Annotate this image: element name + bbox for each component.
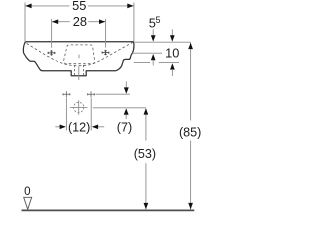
arrow left of dim 55 — [25, 4, 31, 9]
extension line left of dim 55 — [24, 3, 26, 42]
svg-text:10: 10 — [165, 46, 179, 61]
arrow top of dim 53 — [144, 108, 149, 114]
svg-text:(7): (7) — [117, 120, 132, 134]
tap hole right — [102, 50, 110, 55]
reference line drain level — [93, 107, 146, 109]
extension bar right of dim 12 — [90, 98, 92, 131]
fixing hole right — [87, 91, 95, 97]
basin outline — [23, 42, 134, 76]
arrow above rim for dim 10 — [171, 29, 173, 36]
arrow below apron level for dim 10 — [170, 63, 175, 69]
svg-text:(53): (53) — [134, 147, 156, 161]
dashed inner bowl curve — [27, 42, 133, 65]
arrow top of dim 85 — [188, 43, 193, 49]
svg-text:28: 28 — [73, 14, 87, 29]
rim underside reference line — [133, 52, 163, 54]
dashed drain recess left edge — [74, 65, 76, 75]
label (53) — [132, 141, 158, 164]
arrow left of dim 12 — [55, 126, 60, 128]
rim level reference line — [135, 41, 191, 43]
centre tick in shelf — [78, 55, 80, 59]
dimension line 28 — [52, 21, 106, 23]
dashed drain recess right edge — [82, 65, 84, 75]
svg-text:55: 55 — [72, 0, 86, 13]
arrow below rim underside for dim 5.5 — [151, 54, 156, 60]
drain cross horizontal — [70, 106, 87, 108]
datum triangle — [24, 197, 32, 209]
label 10 — [165, 46, 181, 59]
arrow right of dim 12 — [97, 126, 104, 128]
centre line below basin — [78, 66, 80, 80]
label 55 — [70, 0, 89, 12]
dimension line 55 — [25, 5, 134, 7]
arrow below drain level for dim 7 — [124, 108, 129, 114]
svg-text:(85): (85) — [179, 125, 201, 139]
svg-text:5: 5 — [156, 15, 161, 25]
arrow bottom of dim 53 — [144, 203, 149, 209]
dashed rear shelf outline — [64, 45, 95, 64]
extension line right of dim 28 — [105, 19, 107, 48]
label (12) — [67, 121, 90, 133]
svg-text:(12): (12) — [68, 120, 90, 134]
arrow bottom of dim 85 — [188, 203, 193, 209]
fixing hole left — [62, 91, 70, 97]
arrow above fixing level for dim 7 — [125, 81, 127, 88]
dimension line 53 — [145, 109, 147, 210]
arrow right of dim 55 — [127, 4, 133, 9]
arrow above rim for dim 5.5 — [152, 29, 154, 36]
drain circle — [74, 102, 84, 112]
extension bar left of dim 12 — [65, 98, 67, 131]
extension line right of dim 55 — [133, 3, 135, 42]
dimension line 85 — [190, 43, 192, 210]
apron level reference line — [134, 62, 151, 64]
arrow left of dim 28 — [52, 19, 58, 24]
arrow right of dim 28 — [99, 19, 105, 24]
tap hole left — [48, 50, 56, 55]
extension line left of dim 28 — [51, 19, 53, 48]
drain cross vertical — [78, 100, 80, 115]
reference line fixing level — [96, 93, 131, 95]
ground line — [22, 209, 195, 211]
svg-text:0: 0 — [24, 185, 30, 198]
label 28 — [70, 16, 89, 28]
label (85) — [177, 120, 203, 140]
